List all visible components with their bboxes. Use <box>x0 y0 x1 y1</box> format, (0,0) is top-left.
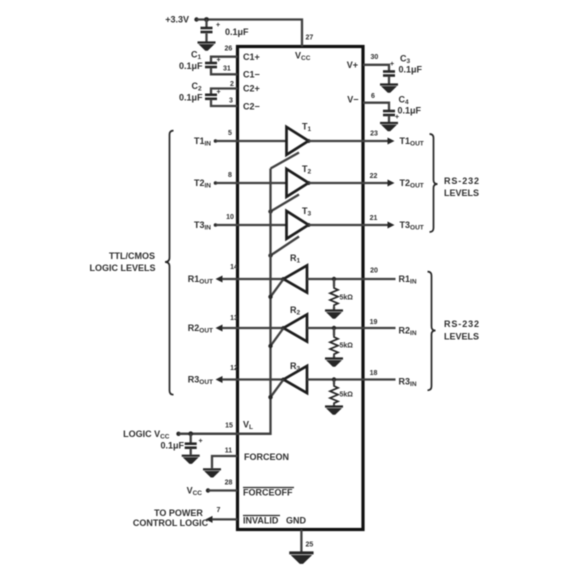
svg-text:28: 28 <box>225 480 233 487</box>
svg-text:13: 13 <box>230 315 238 322</box>
svg-text:22: 22 <box>370 173 378 180</box>
svg-text:11: 11 <box>225 448 233 455</box>
svg-text:C2+: C2+ <box>243 84 260 94</box>
svg-text:LOGIC VCC: LOGIC VCC <box>123 429 170 441</box>
svg-text:C2: C2 <box>192 81 203 93</box>
svg-text:0.1μF: 0.1μF <box>225 27 249 37</box>
svg-text:+: + <box>217 89 221 96</box>
svg-text:FORCEOFF: FORCEOFF <box>243 488 293 498</box>
svg-text:30: 30 <box>371 54 379 61</box>
svg-text:TO POWER: TO POWER <box>154 508 203 518</box>
svg-text:T3OUT: T3OUT <box>400 220 424 232</box>
svg-text:5kΩ: 5kΩ <box>340 295 354 302</box>
svg-text:C4: C4 <box>399 95 410 107</box>
svg-text:INVALID: INVALID <box>243 516 279 526</box>
svg-text:10: 10 <box>226 214 234 221</box>
svg-text:26: 26 <box>225 46 233 53</box>
svg-text:23: 23 <box>370 131 378 138</box>
svg-text:GND: GND <box>286 516 307 526</box>
svg-text:12: 12 <box>230 365 238 372</box>
svg-text:21: 21 <box>370 215 378 222</box>
svg-text:18: 18 <box>370 370 378 377</box>
svg-text:27: 27 <box>306 35 314 42</box>
svg-text:R2IN: R2IN <box>399 326 417 338</box>
svg-text:FORCEON: FORCEON <box>244 452 289 462</box>
svg-text:+: + <box>217 57 221 64</box>
svg-text:15: 15 <box>225 423 233 430</box>
svg-text:5kΩ: 5kΩ <box>340 343 354 350</box>
svg-text:+3.3V: +3.3V <box>165 15 189 25</box>
svg-text:14: 14 <box>230 264 238 271</box>
svg-text:31: 31 <box>223 66 231 73</box>
svg-text:LEVELS: LEVELS <box>444 188 479 198</box>
svg-text:+: + <box>199 438 203 445</box>
svg-text:RS-232: RS-232 <box>444 319 480 329</box>
svg-text:T2IN: T2IN <box>194 178 211 190</box>
svg-text:0.1μF: 0.1μF <box>398 106 422 116</box>
svg-text:V−: V− <box>347 95 358 105</box>
svg-text:5kΩ: 5kΩ <box>340 392 354 399</box>
svg-text:R3OUT: R3OUT <box>188 375 213 387</box>
svg-text:5: 5 <box>228 130 232 137</box>
svg-text:C1−: C1− <box>243 70 260 80</box>
svg-text:RS-232: RS-232 <box>444 176 480 186</box>
svg-text:C1: C1 <box>191 50 202 62</box>
svg-text:R2OUT: R2OUT <box>188 323 213 335</box>
svg-text:V+: V+ <box>347 60 358 70</box>
svg-text:+: + <box>390 61 394 68</box>
svg-text:T3IN: T3IN <box>194 220 211 232</box>
svg-text:C2−: C2− <box>243 102 260 112</box>
svg-text:LOGIC LEVELS: LOGIC LEVELS <box>89 263 155 273</box>
svg-text:VCC: VCC <box>187 486 203 498</box>
svg-text:7: 7 <box>217 507 221 514</box>
svg-text:C1+: C1+ <box>243 52 260 62</box>
svg-text:T1OUT: T1OUT <box>400 136 424 148</box>
svg-text:20: 20 <box>370 268 378 275</box>
svg-text:0.1μF: 0.1μF <box>399 65 423 75</box>
svg-text:3: 3 <box>229 98 233 105</box>
svg-text:8: 8 <box>228 172 232 179</box>
svg-text:R3IN: R3IN <box>399 377 417 389</box>
svg-text:R1IN: R1IN <box>399 274 417 286</box>
svg-text:TTL/CMOS: TTL/CMOS <box>109 251 155 261</box>
svg-text:T2OUT: T2OUT <box>400 178 424 190</box>
svg-text:LEVELS: LEVELS <box>444 332 479 342</box>
svg-text:0.1μF: 0.1μF <box>179 61 203 71</box>
svg-text:R1OUT: R1OUT <box>188 274 213 286</box>
svg-text:C3: C3 <box>400 54 411 66</box>
svg-text:+: + <box>216 22 220 29</box>
svg-text:0.1μF: 0.1μF <box>160 441 184 451</box>
svg-text:25: 25 <box>306 542 314 549</box>
svg-text:19: 19 <box>370 319 378 326</box>
svg-text:T1IN: T1IN <box>194 136 211 148</box>
svg-text:6: 6 <box>371 93 375 100</box>
svg-text:CONTROL LOGIC: CONTROL LOGIC <box>133 518 209 528</box>
svg-text:0.1μF: 0.1μF <box>179 93 203 103</box>
svg-text:2: 2 <box>230 81 234 88</box>
